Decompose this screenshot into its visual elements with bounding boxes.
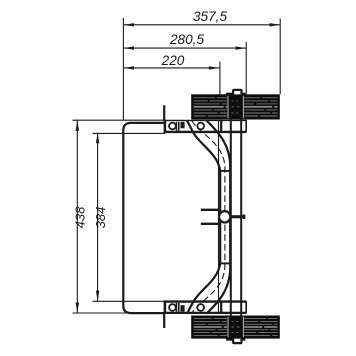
axle right line: [240, 120, 242, 316]
hub grease fitting bar: [230, 215, 243, 218]
bolt circle 1 (top bracket): [169, 123, 176, 130]
bottom axle cap step: [226, 338, 245, 340]
clamp block (bottom bracket): [176, 303, 180, 312]
axle tube: straight section inner wall: [229, 167, 231, 268]
svg-text:438: 438: [73, 206, 88, 228]
dimension 280,5: [123, 32, 246, 50]
bolt circle 2 (bottom bracket): [197, 304, 204, 311]
dimension 220: [123, 53, 219, 70]
bolt circle 1 (bottom bracket): [169, 304, 176, 311]
axle tube: bottom bend inner wall: [207, 268, 231, 314]
svg-text:280,5: 280,5: [169, 32, 204, 47]
frame rail right edge through bottom bracket: [220, 301, 222, 314]
axle left line: [230, 120, 232, 316]
extension line: 438 top (bracket top level): [73, 119, 165, 121]
hub mount plate bottom line: [201, 223, 220, 225]
dimension 438: [73, 120, 88, 313]
tick above top bracket: [163, 105, 165, 120]
hub mount plate top line: [201, 209, 220, 211]
axle tube: top bend inner wall: [207, 121, 231, 167]
axle tube: top bend outer wall: [187, 121, 220, 171]
frame right edge (thin, behind axle tube): [218, 121, 220, 313]
axle tube: bottom bend outer wall: [187, 263, 220, 313]
top axle cap step: [226, 93, 245, 95]
top axle cap: [233, 90, 241, 95]
top bracket: [164, 120, 247, 133]
extension line: bracket right reference (280.5): [245, 42, 247, 94]
bolt circle 2 (top bracket): [197, 123, 204, 130]
svg-text:384: 384: [93, 207, 108, 229]
dimension 384: [93, 133, 108, 302]
tube joint (top rung): [219, 170, 231, 172]
extension line: 438 bottom (frame bottom level): [73, 312, 141, 314]
extension line: frame left edge reference: [122, 18, 124, 121]
hub circle: [219, 211, 230, 222]
svg-text:357,5: 357,5: [193, 9, 227, 24]
tube joint (bottom rung): [219, 262, 231, 264]
axle tube: dashed centerline: [192, 121, 225, 314]
extension line: 384 top (bracket bottom level): [93, 132, 166, 134]
tick below bottom bracket: [163, 313, 165, 328]
extension line: wheel right reference (357.5): [279, 19, 281, 95]
frame (rounded rectangle body, right edge thin): [123, 123, 164, 313]
bottom axle cap: [233, 339, 241, 344]
top wheel: [191, 94, 280, 119]
axle tube: straight section outer wall: [219, 171, 221, 264]
bottom bracket: [164, 301, 247, 314]
extension line: tube outer reference (220): [219, 62, 221, 95]
bottom wheel: [191, 316, 280, 339]
svg-text:220: 220: [161, 53, 185, 68]
hub grease fitting end cap: [243, 214, 246, 219]
extension line: 384 bottom (bottom bracket top level): [93, 300, 166, 302]
clamp block (top bracket): [176, 122, 180, 131]
dimension 357,5: [123, 9, 280, 26]
frame rail right edge through top bracket: [220, 120, 222, 133]
